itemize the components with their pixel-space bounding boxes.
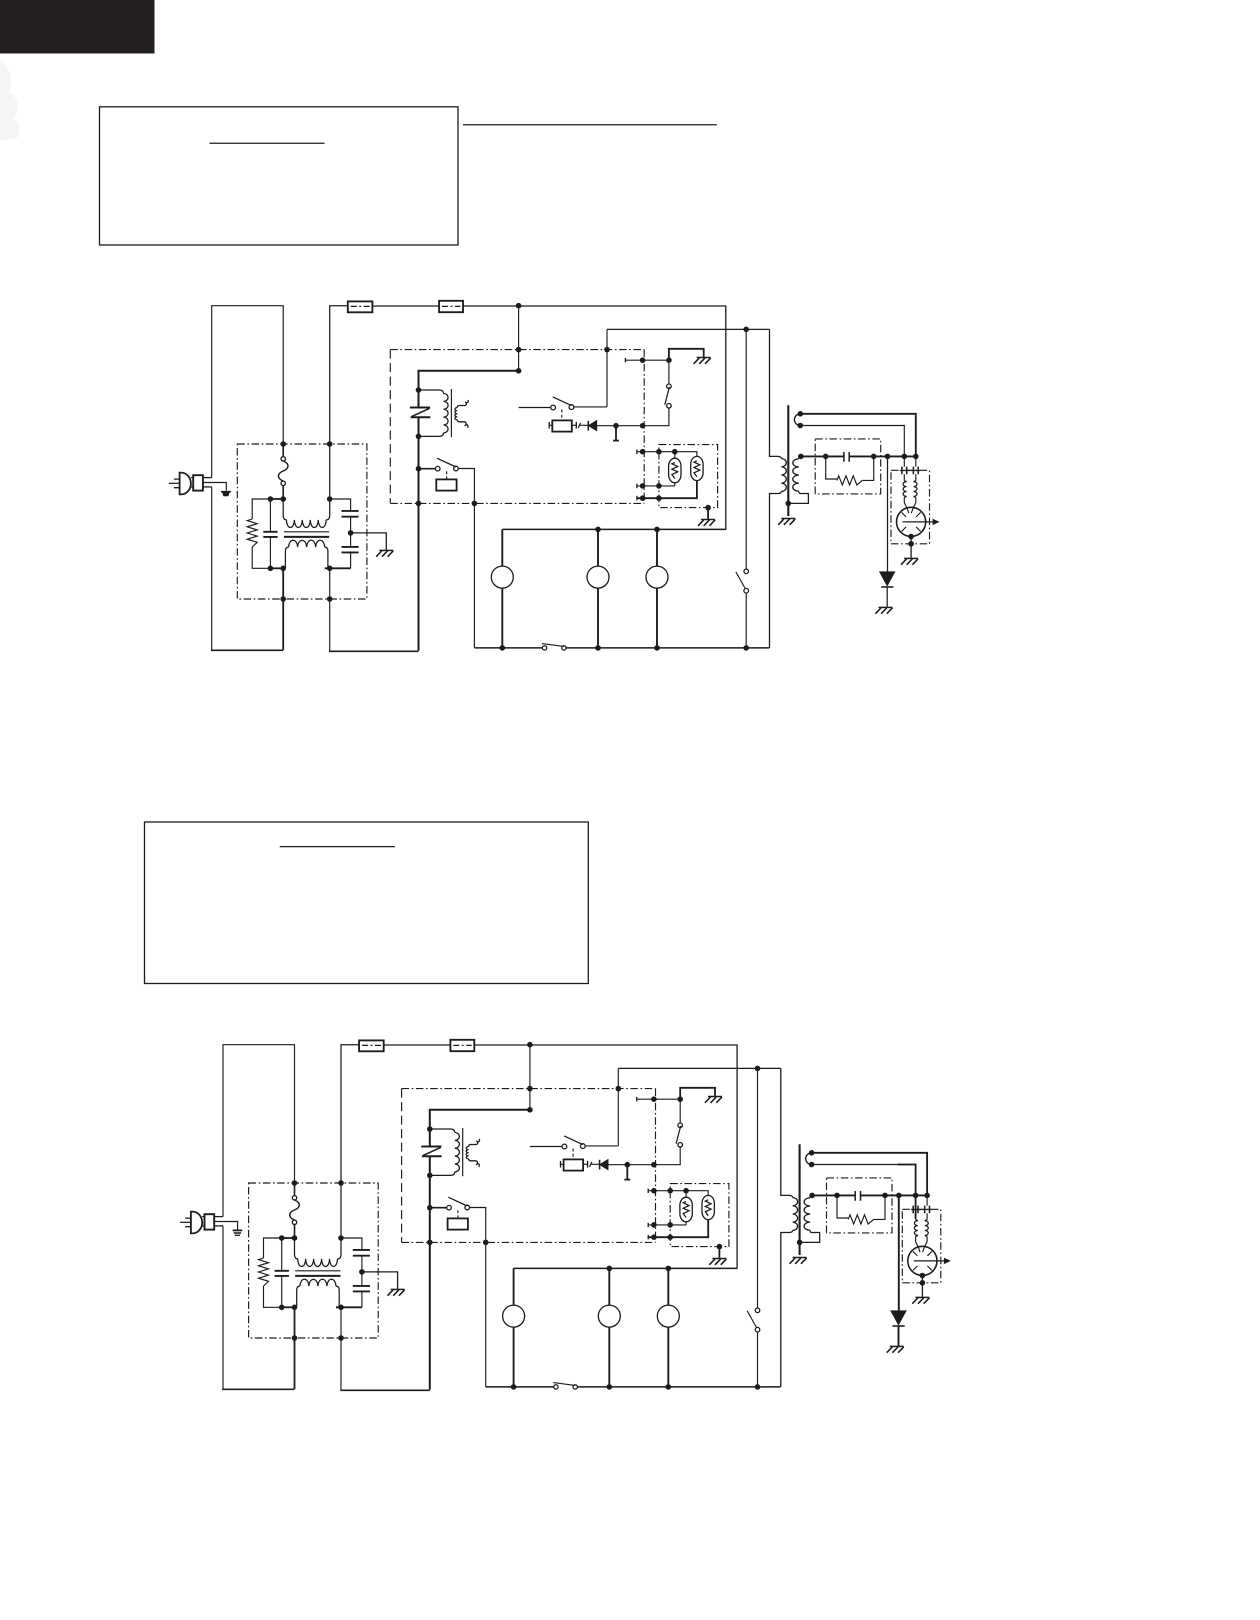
schematic 1: [169, 301, 940, 652]
note box 2: [145, 822, 589, 984]
note box 1 title underline: [210, 142, 325, 144]
header black block: [0, 0, 155, 54]
scan smudge: [0, 60, 19, 141]
figure title underline schematic 1: [463, 124, 717, 126]
ground earth plug schematic 2: [233, 1230, 243, 1235]
ground earth plug schematic 1: [221, 491, 232, 496]
schematic 2: [180, 1040, 951, 1391]
note box 1: [100, 107, 459, 245]
wire bold HV diode drop schematic 2: [898, 1195, 900, 1345]
wire bold filament lead 2 schematic 2: [898, 1165, 916, 1219]
note box 2 title underline: [280, 846, 395, 848]
